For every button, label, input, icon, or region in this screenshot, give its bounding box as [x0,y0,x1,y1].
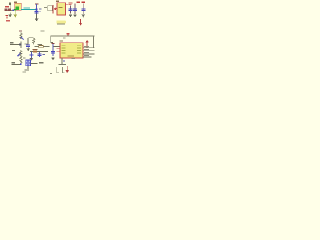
node VIN junction [13,10,15,11]
wire vertical at C7 [38,52,41,57]
wire corner bottom left [57,67,60,73]
part S1 label [25,69,29,70]
part S1 wire down [27,66,30,69]
diode D1 [52,5,55,13]
net highlight yellow row2 [56,20,65,23]
supply arrow down VCC4 [66,66,69,71]
header JP1 pin1 [20,41,23,48]
wire vertical to C8 [50,36,53,43]
capacitor C7 value [43,54,46,55]
resistor R4 value [23,57,25,58]
wire vertical at C4 [82,3,85,14]
wire vertical at C1 [35,4,38,14]
regulator IC1 body [15,3,21,10]
ground GND6 below C4 [81,14,85,17]
capacitor C1 value row2 [39,10,41,13]
bus wire 1 label [84,46,89,47]
junction dot at C1 [36,9,38,11]
capacitor C3 plates [73,8,77,10]
transistor Q2 [20,50,22,57]
wire 3V3 [21,9,36,10]
IC U1 right pin wire [66,3,69,6]
wire S1 to right [30,62,37,65]
resistor R1 vertical [33,38,35,45]
net label bottom text [59,64,67,65]
bus wire 4 label [84,55,89,56]
resistor R3 label [33,49,38,50]
supply arrow up VCC3 [85,40,88,43]
IC U2 name [60,40,64,41]
transistor Q2 label [12,50,15,51]
net label row2 center [57,23,65,24]
bus wire 2 [83,49,95,52]
capacitor C4 value label [82,2,85,3]
connector X1 pad 2 [8,9,11,11]
wire vertical at C3 [74,3,77,14]
capacitor C1 value [39,9,42,10]
transistor Q1 label [19,30,22,31]
IC U2 body [60,43,83,58]
pin label grey [44,7,47,8]
connector X1 label [5,6,9,7]
bus wire 4 [83,56,92,59]
bus wire 3 label [84,52,89,53]
net tick VCC [67,35,70,36]
part F1 glyph [9,2,11,5]
wire vertical at C8 [52,44,55,56]
part L1 box [48,6,52,11]
resistor R2 wire [34,45,49,48]
capacitor C1 plates [35,11,39,13]
bus wire 3 [83,53,95,56]
IC U2 left pins [57,48,60,51]
capacitor C8 plates [51,51,55,53]
ground GND9 below C8 [51,57,55,60]
net text SV1 [10,42,13,43]
wire vertical at C6 [30,52,33,58]
header JP1 pin label [24,43,27,44]
resistor R4 vertical [20,55,22,64]
ground GND1 [9,13,12,15]
header JP1 pad [19,44,21,46]
part S1 cross [26,60,30,65]
transistor Q1 [20,33,22,40]
regulator IC1 name [14,2,17,3]
wire to header pin1 [10,43,19,46]
tiny label bottom left of corner [50,73,52,74]
wire regulator to ground [14,11,17,15]
IC U1 name [56,1,59,2]
supply symbol VCC bar [35,3,38,4]
ground GND8 below C6 [30,58,34,61]
part F1 stem [9,5,12,9]
IC U1 left pin [55,7,57,10]
ground GND1 red label [6,15,8,18]
capacitor C7 plates [37,54,41,56]
IC U1 body [57,3,66,15]
IC U1 internal text [58,7,62,8]
tiny label below bus wire [63,38,66,39]
supply bar at C8 [51,43,54,44]
capacitor C6 plates [29,54,33,56]
ground GND4 below C2 [69,14,73,17]
IC U2 part value [68,55,75,56]
IC U2 right pin names [77,45,81,53]
net label right of S1 [39,62,44,63]
tiny label left of bus corner [40,31,44,32]
regulator IC1 pin dot [14,9,16,11]
resistor R2 body [39,45,44,47]
resistor R3 body [33,50,37,52]
header text bottom-left [11,62,14,63]
wire vertical at C2 [69,5,72,13]
capacitor C2 plates [69,9,73,11]
bus wire 1 [83,46,95,49]
resistor R3 wire [30,50,48,53]
capacitor C5 plates [26,45,30,47]
capacitor C4 plates [81,8,85,10]
wire U2 bottom down [61,58,64,64]
capacitor C3 value label [77,2,80,3]
IC U2 left pin names [61,45,65,53]
ground GND2 below regulator [14,15,18,18]
regulator IC1 symbol [16,6,20,10]
net label VCC red [66,33,69,34]
wire corner to R1 [27,37,33,44]
wire VIN [5,9,15,12]
wire to R4 [11,63,20,66]
wire corner bottom right [62,67,64,73]
net label GND blue [63,61,65,62]
ground GND3 below C1 [35,13,38,18]
supply arrow down VCC2 [79,19,82,23]
wire net top bus [50,35,94,47]
part S1 body [26,60,31,66]
transistor Q2 emitter [17,52,22,57]
wire C8 to U2 [54,45,61,48]
capacitor C2 name label [69,3,73,4]
red text TP label row2 [6,20,10,22]
junction dot R4 [20,64,22,66]
bus wire 2 label [84,49,89,50]
capacitor C2 value label [69,4,72,5]
ground GND7 below C5 [27,47,30,49]
transistor Q1 emitter [21,37,25,41]
net label 3V3 [24,8,31,9]
tiny text top right of wire corner [72,58,75,59]
ground GND5 below C3 [73,14,77,17]
connector X1 pad 1 [5,9,8,11]
resistor R2 label [38,44,42,45]
tiny text bottom strip [22,71,26,72]
